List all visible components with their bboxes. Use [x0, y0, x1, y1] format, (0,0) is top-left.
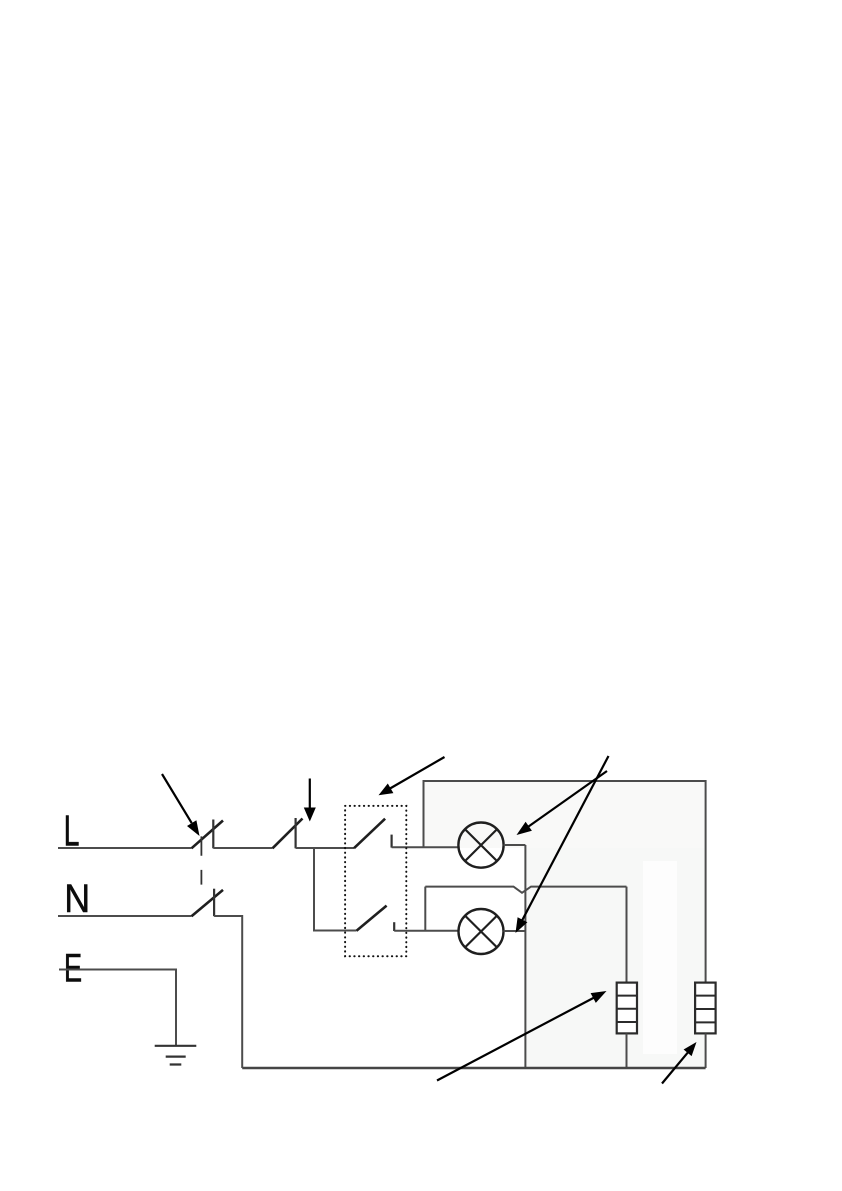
switch S1 N-pole blade: [192, 890, 224, 916]
top loop wire (L feed to R2 branch): [424, 781, 706, 983]
svg-text:N: N: [64, 876, 90, 921]
switch S2 blade: [273, 819, 303, 849]
shading inside top-right loop: [425, 782, 705, 848]
switch S3b blade: [357, 906, 387, 931]
switch S1 L-pole contact bar: [212, 820, 214, 849]
wire N feed: [58, 915, 192, 917]
mid wire left drop to LP2 feed: [424, 887, 426, 931]
wire branch from node T down to S3b: [314, 848, 357, 931]
white band between R1 and R2 branches: [643, 861, 677, 1054]
callout arrow at lamp LP2: [516, 756, 609, 933]
callout arrow at R1: [437, 991, 607, 1081]
vertical bus from LP1 to bottom wire: [524, 845, 526, 1068]
switch S3b contact stub: [393, 922, 395, 931]
wire N to bottom return: [214, 916, 242, 1068]
ground symbol: [155, 1046, 197, 1065]
lamp LP2: [459, 909, 504, 954]
R2 bottom lead: [705, 1033, 707, 1068]
bottom return wire: [242, 1067, 705, 1069]
switch S2 contact bar: [295, 818, 297, 848]
dotted enclosure around S3 dual switch: [345, 806, 406, 956]
switch S3a blade: [354, 819, 385, 849]
callout arrow at S2: [304, 779, 316, 822]
heating element R1: [617, 983, 637, 1034]
switch S1 N-pole contact bar: [213, 889, 215, 917]
mid wire with hop to R1 branch: [425, 887, 626, 893]
wire S3b output to lamp LP2: [394, 930, 459, 932]
heating element R2: [695, 983, 716, 1034]
wire L feed: [58, 847, 192, 849]
lamp LP1: [458, 823, 503, 868]
wire E feed: [59, 970, 176, 1046]
wire S3a output to lamp LP1: [392, 846, 459, 848]
switch S1 L-pole blade: [192, 821, 224, 849]
wire LP2 to down bus: [504, 930, 526, 932]
callout arrow at R2: [662, 1042, 697, 1084]
R1 branch drop wire: [626, 887, 628, 983]
callout arrow at lamp LP1: [517, 771, 608, 835]
mechanical linkage (dashed): [200, 836, 202, 884]
switch S3a contact stub: [391, 835, 393, 848]
wire LP1 to down bus: [504, 844, 526, 846]
callout arrow at S3 dotted box: [379, 757, 445, 795]
wire L between S1 and S2: [213, 847, 272, 849]
wire L between S2 and S3a: [296, 847, 354, 849]
callout arrow at S1: [162, 774, 200, 836]
shading between lamp return and R2 branch: [527, 848, 705, 1067]
R1 bottom lead: [626, 1033, 628, 1068]
